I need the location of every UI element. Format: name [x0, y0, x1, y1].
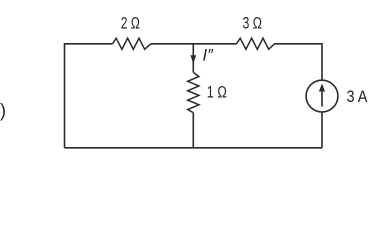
current source arrow	[321, 88, 323, 107]
wire top right and right side upper	[275, 44, 323, 80]
svg-text:3 Ω: 3 Ω	[242, 14, 262, 33]
current source U1 3 A	[306, 80, 338, 112]
resistor R2 3 ohm	[237, 38, 275, 49]
wire top middle	[151, 43, 237, 45]
resistor R1 2 ohm	[113, 38, 151, 49]
wire middle branch upper with current arrow	[192, 44, 194, 73]
wire bottom	[65, 147, 323, 149]
wire right side lower	[321, 112, 323, 148]
part label ")" (cut off at left edge)	[0, 101, 6, 121]
current arrow I''	[190, 55, 196, 64]
svg-text:I″: I″	[203, 47, 215, 65]
svg-text:1 Ω: 1 Ω	[207, 83, 227, 102]
resistor R3 1 ohm	[188, 72, 199, 112]
wire left side and top-left segment	[65, 44, 113, 148]
svg-text:): )	[0, 101, 6, 121]
wire middle branch lower	[192, 113, 194, 148]
svg-text:3 A: 3 A	[347, 87, 369, 106]
svg-text:2 Ω: 2 Ω	[121, 14, 140, 33]
